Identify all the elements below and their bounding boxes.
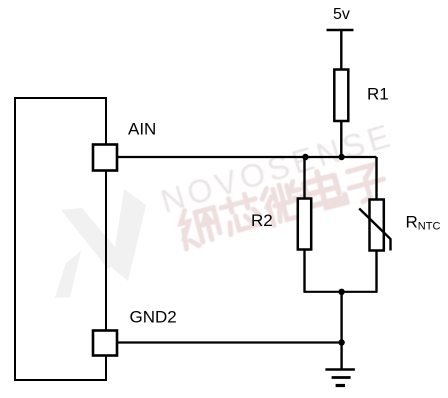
svg-text:5v: 5v	[333, 6, 350, 23]
svg-text:R1: R1	[367, 85, 389, 104]
svg-text:AIN: AIN	[128, 120, 156, 139]
svg-text:GND2: GND2	[130, 307, 177, 326]
svg-text:R2: R2	[251, 211, 273, 230]
